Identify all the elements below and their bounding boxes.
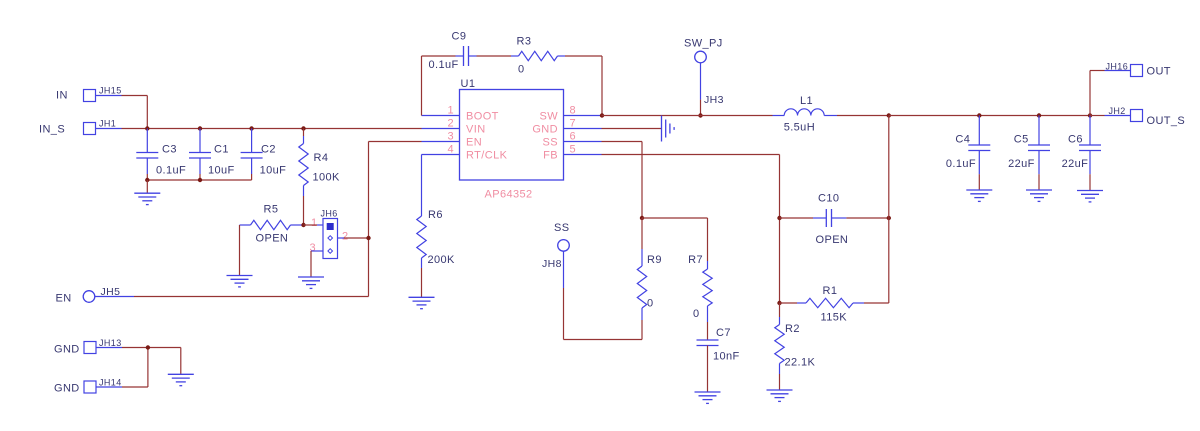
junction C5 top xyxy=(1037,113,1041,117)
wire to ground xyxy=(180,348,182,375)
junction FB C10 xyxy=(777,216,781,220)
wire R3 right xyxy=(565,55,602,57)
svg-text:OUT: OUT xyxy=(1147,66,1171,78)
junction FB divider top xyxy=(887,113,891,117)
svg-text:0: 0 xyxy=(518,64,525,76)
ground under R2 xyxy=(767,389,793,391)
svg-text:10uF: 10uF xyxy=(260,165,287,177)
svg-text:AP64352: AP64352 xyxy=(485,189,533,201)
svg-text:OPEN: OPEN xyxy=(816,234,849,246)
wire SS net xyxy=(602,141,643,143)
svg-text:R3: R3 xyxy=(517,36,532,48)
wire capacitor bottom bus xyxy=(147,179,251,181)
svg-text:6: 6 xyxy=(570,131,577,143)
U1 pin 4 RT/CLK xyxy=(422,154,460,156)
inductor L1 xyxy=(773,115,785,117)
svg-text:JH2: JH2 xyxy=(1109,106,1126,116)
connector JH16 xyxy=(1131,65,1143,77)
svg-text:4: 4 xyxy=(447,144,454,156)
svg-text:C1: C1 xyxy=(214,144,229,156)
wire to ground xyxy=(146,180,148,193)
svg-text:C2: C2 xyxy=(261,144,276,156)
svg-text:0.1uF: 0.1uF xyxy=(156,165,186,177)
U1 pin 8 SW xyxy=(564,115,602,117)
wire GND pin xyxy=(602,128,662,130)
svg-text:FB: FB xyxy=(543,150,558,162)
connector JH5 xyxy=(83,291,95,303)
resistor R5 xyxy=(240,224,251,226)
junction GND wires xyxy=(146,345,150,349)
svg-text:C4: C4 xyxy=(955,134,970,146)
svg-text:RT/CLK: RT/CLK xyxy=(466,150,508,162)
svg-text:R6: R6 xyxy=(428,209,443,221)
ground under C3 xyxy=(134,192,160,194)
wire JH15 to bus xyxy=(122,95,148,97)
junction FB R1 R2 xyxy=(777,301,781,305)
wire IN_S bus xyxy=(122,128,422,130)
svg-text:SS: SS xyxy=(543,137,558,149)
svg-text:0: 0 xyxy=(693,308,700,320)
svg-text:200K: 200K xyxy=(428,254,456,266)
svg-text:C6: C6 xyxy=(1068,134,1083,146)
junction at C1 top xyxy=(198,126,202,130)
svg-text:R4: R4 xyxy=(314,152,329,164)
svg-text:0.1uF: 0.1uF xyxy=(429,59,459,71)
svg-text:U1: U1 xyxy=(461,78,476,90)
wire JH6 pin1 xyxy=(304,224,318,226)
svg-text:5: 5 xyxy=(570,144,577,156)
svg-text:R2: R2 xyxy=(785,323,800,335)
svg-text:C9: C9 xyxy=(452,31,467,43)
wire JH8 drop xyxy=(563,251,565,288)
wire SW_PJ drop xyxy=(700,63,702,100)
svg-text:IN: IN xyxy=(56,90,68,102)
svg-text:7: 7 xyxy=(570,118,577,130)
svg-text:22.1K: 22.1K xyxy=(785,357,816,369)
svg-text:GND: GND xyxy=(54,383,80,395)
wire JH5 lead xyxy=(95,296,134,298)
svg-text:0: 0 xyxy=(647,298,654,310)
junction output branch xyxy=(1088,113,1092,117)
svg-text:R7: R7 xyxy=(688,254,703,266)
svg-text:JH14: JH14 xyxy=(99,378,122,388)
svg-text:0.1uF: 0.1uF xyxy=(946,158,976,170)
svg-text:EN: EN xyxy=(466,137,482,149)
svg-text:SW: SW xyxy=(539,111,558,123)
wire JH16 branch xyxy=(1089,71,1091,116)
capacitor C5 xyxy=(1038,116,1040,146)
svg-text:2: 2 xyxy=(447,118,454,130)
svg-text:IN_S: IN_S xyxy=(39,124,65,136)
junction JH6 pin2 EN xyxy=(366,236,370,240)
U1 pin 7 GND xyxy=(564,128,602,130)
U1 pin 5 FB xyxy=(564,154,602,156)
resistor R4 xyxy=(303,129,305,137)
capacitor C6 xyxy=(1089,116,1091,146)
svg-text:JH16: JH16 xyxy=(1106,62,1129,72)
svg-text:2: 2 xyxy=(342,231,349,243)
svg-text:OUT_S: OUT_S xyxy=(1147,115,1186,127)
resistor R9 xyxy=(641,218,643,249)
ground under JH6 pin3 xyxy=(298,276,324,278)
connector SW_PJ circle xyxy=(695,51,707,63)
capacitor C2 xyxy=(251,129,253,153)
resistor R6 xyxy=(421,155,423,217)
U1 pin 2 VIN xyxy=(422,128,460,130)
wire C9 left xyxy=(422,55,456,57)
junction SW boot xyxy=(600,113,604,117)
junction at C3 top xyxy=(145,126,149,130)
svg-text:8: 8 xyxy=(570,105,577,117)
U1 pin 1 BOOT xyxy=(422,115,460,117)
wire divider vertical xyxy=(888,116,890,304)
wire JH6 pin3 xyxy=(311,250,323,252)
U1 pin 3 EN xyxy=(422,141,460,143)
resistor R3 xyxy=(511,55,519,57)
U1 pin 6 SS xyxy=(564,141,602,143)
resistor R7 xyxy=(707,261,709,269)
capacitor C4 xyxy=(978,116,980,146)
svg-text:5.5uH: 5.5uH xyxy=(784,122,815,134)
svg-text:JH1: JH1 xyxy=(99,119,116,129)
ground sideways at GND pin xyxy=(661,116,663,142)
svg-text:EN: EN xyxy=(56,293,72,305)
svg-text:VIN: VIN xyxy=(466,124,486,136)
junction at C1 bottom xyxy=(198,178,202,182)
capacitor C3 xyxy=(146,129,148,153)
svg-text:R1: R1 xyxy=(823,285,838,297)
capacitor C7 xyxy=(697,339,719,341)
ground under C4 xyxy=(966,189,992,191)
svg-text:10uF: 10uF xyxy=(208,165,235,177)
connector JH13 xyxy=(84,342,96,354)
connector JH8 circle xyxy=(558,240,570,252)
junction SW_PJ xyxy=(698,113,702,117)
wire JH2 xyxy=(1090,115,1105,117)
connector JH15 xyxy=(84,90,96,102)
connector JH2 xyxy=(1131,110,1143,122)
svg-text:115K: 115K xyxy=(821,312,848,324)
wire SW row xyxy=(602,115,773,117)
svg-text:JH13: JH13 xyxy=(99,338,122,348)
wire EN row xyxy=(134,296,369,298)
junction R9 top xyxy=(640,216,644,220)
svg-text:C3: C3 xyxy=(162,144,177,156)
connector JH14 xyxy=(84,381,96,393)
resistor R1 xyxy=(780,302,798,304)
junction C4 top xyxy=(977,113,981,117)
wire C9 to R3 xyxy=(477,55,512,57)
junction at C2 top xyxy=(249,126,253,130)
ground under C6 xyxy=(1077,190,1103,192)
capacitor C1 xyxy=(199,129,201,153)
connector JH6 xyxy=(323,219,338,259)
ground under R5 xyxy=(227,275,253,277)
resistor R2 xyxy=(779,303,781,317)
junction at R4 top xyxy=(301,126,305,130)
svg-text:GND: GND xyxy=(532,124,558,136)
svg-text:JH6: JH6 xyxy=(321,209,338,219)
svg-text:L1: L1 xyxy=(800,95,813,107)
svg-text:JH3: JH3 xyxy=(704,94,724,106)
wire JH8 to R9 xyxy=(564,339,643,341)
svg-text:JH8: JH8 xyxy=(542,258,562,270)
op-amp U1 AP64352 body xyxy=(460,90,564,181)
svg-text:1: 1 xyxy=(311,217,318,229)
svg-text:SS: SS xyxy=(554,222,569,234)
svg-text:BOOT: BOOT xyxy=(466,111,499,123)
svg-text:10nF: 10nF xyxy=(713,351,740,363)
wire R9 R7 link xyxy=(642,217,708,219)
wire FB net xyxy=(602,154,780,156)
svg-text:C5: C5 xyxy=(1014,134,1029,146)
junction C10 right xyxy=(887,216,891,220)
wire JH6 pin2 xyxy=(338,237,344,239)
svg-text:22uF: 22uF xyxy=(1008,158,1035,170)
wire output bus xyxy=(889,115,1090,117)
wire JH15 lead xyxy=(96,95,122,97)
svg-text:100K: 100K xyxy=(313,172,341,184)
junction at C3 bottom xyxy=(145,178,149,182)
svg-text:R5: R5 xyxy=(264,204,279,216)
ground under R6 xyxy=(409,296,435,298)
svg-text:OPEN: OPEN xyxy=(256,233,289,245)
wire R5 to ground xyxy=(239,225,241,276)
ground under C5 xyxy=(1026,189,1052,191)
ground JH13 JH14 xyxy=(168,373,194,375)
junction R4 R5 JH6 xyxy=(301,223,305,227)
svg-text:C10: C10 xyxy=(818,193,839,205)
svg-text:1: 1 xyxy=(447,105,454,117)
connector JH1 xyxy=(84,123,96,135)
ground under C7 xyxy=(695,391,721,393)
svg-text:R9: R9 xyxy=(647,254,662,266)
svg-text:GND: GND xyxy=(54,344,80,356)
capacitor C9 xyxy=(456,55,464,57)
svg-text:JH15: JH15 xyxy=(99,86,122,96)
wire L1 right xyxy=(837,115,889,117)
svg-text:3: 3 xyxy=(447,131,454,143)
wire JH13 xyxy=(96,347,122,349)
wire JH14 xyxy=(96,386,122,388)
wire JH1 lead xyxy=(96,128,122,130)
svg-text:22uF: 22uF xyxy=(1062,158,1089,170)
capacitor C10 xyxy=(780,217,814,219)
wire EN vertical xyxy=(368,142,370,297)
svg-text:C7: C7 xyxy=(716,327,731,339)
svg-text:SW_PJ: SW_PJ xyxy=(684,38,723,50)
